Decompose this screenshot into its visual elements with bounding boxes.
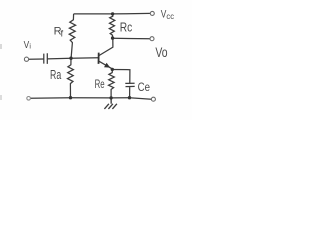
junction Ra bottom	[69, 96, 72, 99]
wire top rail	[74, 12, 151, 15]
svg-text:Ce: Ce	[138, 80, 151, 94]
terminal Vcc	[150, 11, 154, 15]
svg-text:Re: Re	[95, 77, 105, 91]
wire emitter	[99, 61, 112, 68]
svg-text:f: f	[61, 28, 64, 39]
transistor Q1	[99, 53, 111, 68]
scan artifact left edge	[0, 44, 2, 49]
wire bottom rail	[30, 98, 151, 100]
wire emitter bypass	[112, 70, 129, 84]
wire Vo	[113, 37, 150, 39]
svg-text:cc: cc	[166, 11, 174, 21]
svg-text:Rc: Rc	[120, 20, 133, 34]
ground	[104, 98, 117, 109]
wire input	[29, 58, 44, 60]
resistor Rf	[69, 14, 75, 58]
svg-text:Vo: Vo	[155, 45, 167, 60]
capacitor C1 input coupling	[44, 53, 48, 64]
capacitor Ce	[125, 83, 134, 98]
terminal Vo	[150, 37, 154, 41]
terminal Vi top	[24, 57, 28, 61]
wire collector	[99, 38, 113, 56]
junction Rc top	[111, 12, 114, 15]
junction base node	[69, 57, 72, 60]
resistor Ra	[68, 58, 74, 97]
wire base	[48, 58, 99, 59]
svg-text:Ra: Ra	[50, 67, 62, 82]
resistor Rc	[109, 14, 115, 38]
terminal bottom left	[27, 97, 31, 101]
resistor Re	[109, 69, 115, 97]
junction emitter node	[111, 68, 114, 71]
junction Ce bottom	[128, 96, 131, 99]
junction ground node	[109, 96, 112, 99]
terminal bottom right	[151, 97, 155, 101]
junction collector node	[111, 36, 114, 39]
